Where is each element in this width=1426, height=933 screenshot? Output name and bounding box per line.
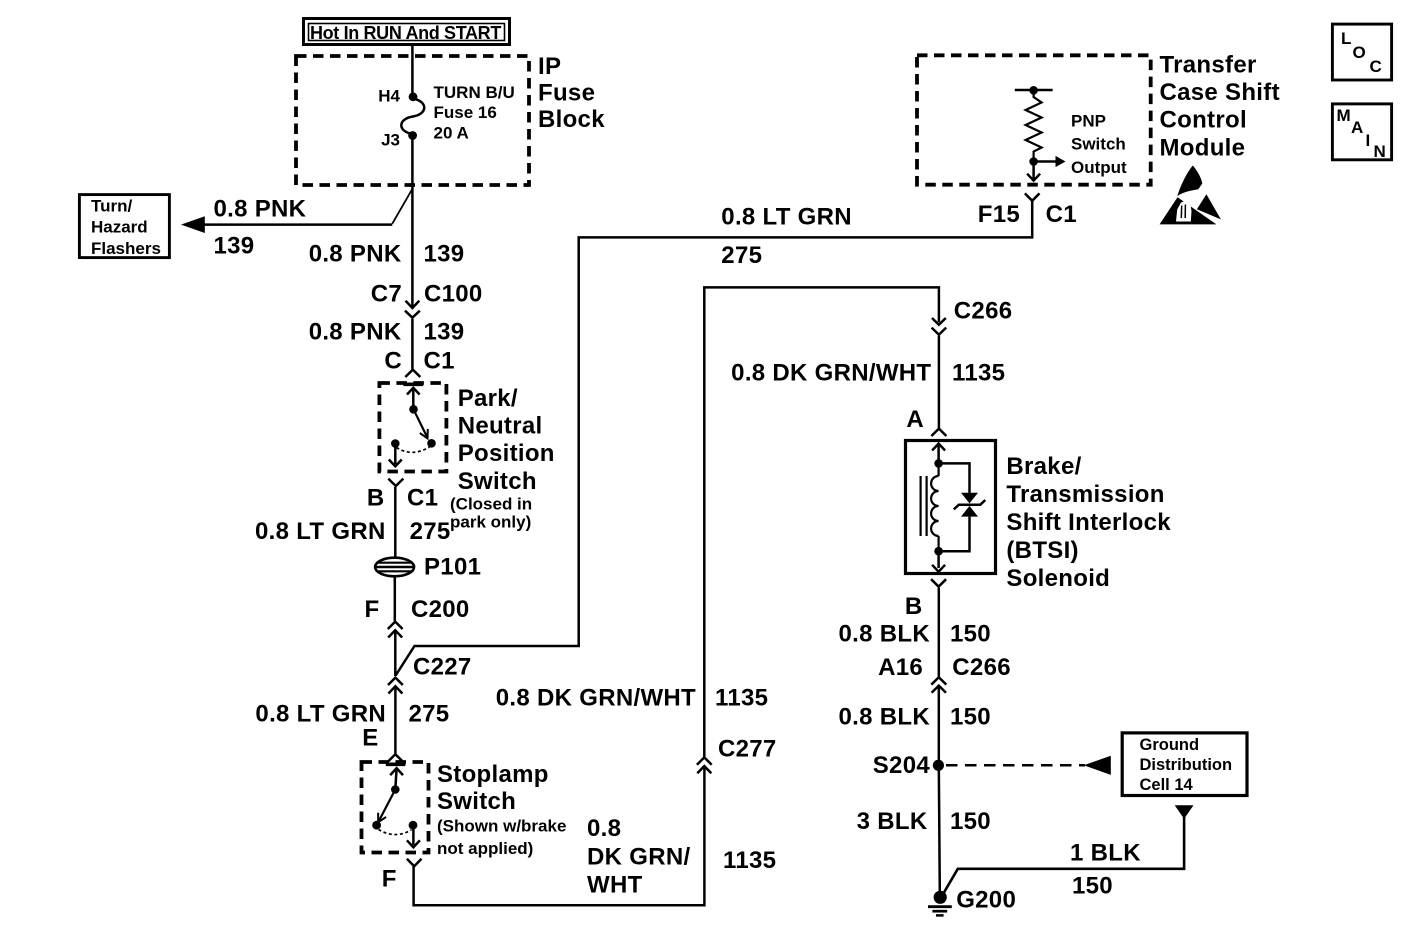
Park/Neutral Position Switch dashed box xyxy=(379,383,446,472)
svg-text:0.8 PNK: 0.8 PNK xyxy=(309,319,402,346)
label 0.8 PNK 139 (below C100) xyxy=(309,319,465,346)
label 0.8 LT GRN 275 (above stoplamp) xyxy=(255,701,449,728)
wire 0.8 DK GRN/WHT 1135 (C277 up to top corner) xyxy=(704,287,939,757)
label 0.8 PNK 139 (flasher branch) xyxy=(214,196,307,260)
splice node S204 xyxy=(873,752,944,779)
wire branch to Turn/Hazard Flashers xyxy=(181,189,412,233)
LOC reference box xyxy=(1332,24,1391,80)
svg-text:C200: C200 xyxy=(411,596,470,623)
svg-text:Hot In RUN And START: Hot In RUN And START xyxy=(310,23,501,43)
terminal chevron below solenoid (B) xyxy=(931,579,946,586)
svg-text:0.8 PNK: 0.8 PNK xyxy=(309,241,402,268)
svg-text:0.8 LT GRN: 0.8 LT GRN xyxy=(721,204,852,231)
svg-text:0.8 LT GRN: 0.8 LT GRN xyxy=(255,518,386,545)
label 0.8 BLK 150 (below C266) xyxy=(839,704,991,731)
Stoplamp Switch label xyxy=(437,761,566,858)
svg-text:I: I xyxy=(1366,131,1371,150)
node H4 xyxy=(378,87,417,106)
svg-text:L: L xyxy=(1341,29,1351,48)
wire branch from C227 junction to Transfer Case Shift Control Module (0.8 LT GRN 275) xyxy=(396,201,1033,676)
svg-text:C1: C1 xyxy=(407,485,438,512)
svg-text:C266: C266 xyxy=(952,654,1011,681)
svg-text:A16: A16 xyxy=(878,654,923,681)
wire (feed from Hot In RUN And START into fuse block) xyxy=(411,45,414,93)
svg-text:C: C xyxy=(1370,57,1382,76)
IP Fuse Block dashed box xyxy=(296,56,529,185)
terminal chevron at stoplamp switch input xyxy=(388,754,403,761)
wire 0.8 LT GRN 275 (C227 to stoplamp switch) xyxy=(394,686,397,753)
label 3 BLK 150 xyxy=(857,808,991,835)
connector A16 / C266 labels xyxy=(878,654,1011,681)
dashed reference wire from S204 to Ground Distribution xyxy=(946,756,1111,775)
wire 0.8 DK GRN/WHT 1135 (C266 to solenoid A) xyxy=(938,336,941,428)
svg-text:M: M xyxy=(1337,106,1351,125)
PNP switch output pull-up resistor xyxy=(1015,86,1053,158)
svg-text:139: 139 xyxy=(214,233,255,260)
svg-text:F15: F15 xyxy=(978,201,1020,228)
svg-text:1 BLK: 1 BLK xyxy=(1070,840,1141,867)
svg-text:0.8 BLK: 0.8 BLK xyxy=(839,704,931,731)
label 1 BLK 150 xyxy=(1070,840,1141,900)
svg-text:150: 150 xyxy=(950,704,991,731)
svg-text:O: O xyxy=(1353,43,1366,62)
wire (J3 output down through fuse block wall) xyxy=(411,137,414,308)
label 0.8 DK GRN/WHT 1135 (left of C277 riser) xyxy=(496,685,769,712)
connector C100 symbol xyxy=(405,301,420,318)
label 0.8 BLK 150 xyxy=(839,621,991,648)
svg-text:150: 150 xyxy=(950,808,991,835)
svg-text:275: 275 xyxy=(410,518,451,545)
ground G200 xyxy=(928,887,1016,916)
connector C227 symbol xyxy=(388,654,472,694)
wire (module output down to F15) xyxy=(1027,166,1040,181)
svg-text:A: A xyxy=(906,406,924,433)
svg-text:C100: C100 xyxy=(424,281,483,308)
Turn/Hazard Flashers box xyxy=(79,195,169,258)
ESD sensitivity symbol xyxy=(1160,166,1222,227)
svg-text:B: B xyxy=(905,593,923,620)
svg-text:C1: C1 xyxy=(424,348,455,375)
Stoplamp Switch dashed box xyxy=(362,762,429,853)
svg-text:275: 275 xyxy=(721,242,762,269)
Ground Distribution Cell 14 box xyxy=(1122,733,1247,796)
splice P101 xyxy=(375,554,481,581)
Transfer Case Shift Control Module dashed box xyxy=(917,55,1151,184)
label 0.8 LT GRN 275 xyxy=(255,518,451,545)
svg-text:H4: H4 xyxy=(378,87,400,106)
fuse TURN B/U Fuse 16 20 A xyxy=(401,83,514,143)
terminal chevron F15 at module xyxy=(1025,193,1040,200)
svg-text:C227: C227 xyxy=(413,654,472,681)
svg-text:0.8 BLK: 0.8 BLK xyxy=(839,621,931,648)
connector C266 symbol (lower) xyxy=(931,677,946,693)
svg-text:N: N xyxy=(1374,142,1386,161)
label 0.8 PNK 139 (circuit 139 above C100) xyxy=(309,241,465,268)
label 0.8 DK GRN/WHT 1135 xyxy=(731,360,1005,387)
connector C266 symbol (top) xyxy=(932,298,1013,335)
terminal F15 / C1 labels xyxy=(978,201,1077,228)
wire 1 BLK 150 (to G200) xyxy=(943,817,1184,894)
svg-text:C277: C277 xyxy=(718,736,777,763)
svg-text:1135: 1135 xyxy=(723,847,776,874)
label 0.8 LT GRN 275 (branch to module) xyxy=(721,204,852,270)
svg-text:A: A xyxy=(1351,118,1363,137)
connector C277 symbol xyxy=(697,736,777,774)
terminal B / C1 labels xyxy=(367,485,438,512)
svg-text:150: 150 xyxy=(950,621,991,648)
Park/Neutral Position Switch label xyxy=(450,385,555,532)
label 0.8 DK GRN/ WHT 1135 (bottom run) xyxy=(587,815,776,899)
wire (C200 to C227 junction) xyxy=(394,630,397,676)
svg-text:0.8 LT GRN: 0.8 LT GRN xyxy=(255,701,386,728)
svg-text:150: 150 xyxy=(1072,873,1113,900)
wire (P101 to C200) xyxy=(394,577,397,622)
svg-text:G200: G200 xyxy=(956,887,1016,914)
PNP switch symbol xyxy=(389,384,436,466)
wire 0.8 BLK 150 (C266 to S204) xyxy=(938,686,941,765)
svg-text:3 BLK: 3 BLK xyxy=(857,808,928,835)
MAIN reference box xyxy=(1332,104,1391,161)
terminal chevron at PNP switch input xyxy=(405,370,420,377)
wire 0.8 DK GRN/WHT (stoplamp F down and across to C277 riser) xyxy=(414,767,705,906)
terminal chevron at solenoid input A xyxy=(931,429,946,436)
svg-text:0.8 PNK: 0.8 PNK xyxy=(214,196,307,223)
power feed label box "Hot In RUN And START" xyxy=(304,19,510,45)
svg-text:J3: J3 xyxy=(381,131,400,150)
node J3 xyxy=(381,131,417,150)
terminal F / C200 labels xyxy=(365,596,470,623)
svg-text:(Closed inpark only): (Closed inpark only) xyxy=(450,495,532,532)
connector C200 symbol xyxy=(388,622,403,638)
wire 0.8 LT GRN 275 (B to P101) xyxy=(394,487,397,558)
svg-text:C1: C1 xyxy=(1046,201,1077,228)
svg-text:139: 139 xyxy=(424,319,465,346)
terminal chevron below stoplamp switch (F) xyxy=(407,859,422,867)
svg-text:1135: 1135 xyxy=(715,685,768,712)
wire (0.8 PNK 139 below C100) xyxy=(411,319,414,369)
svg-text:275: 275 xyxy=(409,701,450,728)
terminal chevron below PNP switch (B) xyxy=(388,479,403,486)
svg-text:C266: C266 xyxy=(954,298,1013,325)
wire 0.8 BLK 150 (B to C266) xyxy=(938,588,941,677)
arrow to PNP Switch Output label xyxy=(1037,111,1127,177)
wire 3 BLK 150 (S204 to G200) xyxy=(939,765,940,893)
svg-text:C: C xyxy=(384,348,402,375)
BTSI solenoid internals xyxy=(921,444,986,572)
terminal C / C1 labels xyxy=(384,348,454,375)
connector C100 terminal C7 labels xyxy=(371,281,483,308)
stoplamp switch symbol xyxy=(372,764,420,847)
svg-text:E: E xyxy=(362,725,378,752)
svg-text:1135: 1135 xyxy=(952,360,1005,387)
node PNP switch output xyxy=(1029,157,1038,166)
svg-text:B: B xyxy=(367,485,385,512)
arrow from Ground Distribution box xyxy=(1175,805,1194,819)
svg-text:C7: C7 xyxy=(371,281,402,308)
svg-text:0.8 DK GRN/WHT: 0.8 DK GRN/WHT xyxy=(496,685,696,712)
svg-text:F: F xyxy=(365,596,380,623)
svg-text:P101: P101 xyxy=(424,554,481,581)
svg-text:S204: S204 xyxy=(873,752,931,779)
svg-text:F: F xyxy=(382,866,397,893)
svg-text:139: 139 xyxy=(424,241,465,268)
svg-text:0.8 DK GRN/WHT: 0.8 DK GRN/WHT xyxy=(731,360,931,387)
Brake/Transmission Shift Interlock (BTSI) Solenoid box xyxy=(906,441,996,574)
